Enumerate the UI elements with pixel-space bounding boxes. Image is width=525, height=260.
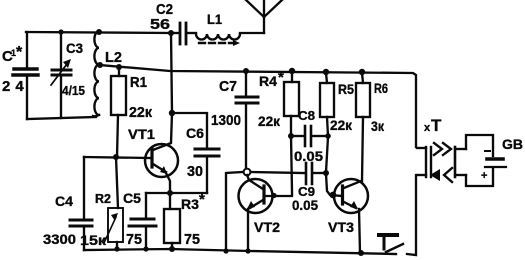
svg-text:C6: C6: [186, 125, 204, 141]
connector XT right half: [455, 147, 466, 177]
wire main top rail: [100, 65, 416, 147]
svg-text:L2: L2: [105, 49, 122, 66]
resistor R4: [258, 68, 299, 136]
svg-text:R6: R6: [374, 80, 388, 96]
battery GB: [481, 136, 523, 182]
wire bottom rail: [84, 249, 396, 254]
svg-text:VT1: VT1: [128, 126, 155, 142]
node VT3 base: [330, 192, 337, 199]
svg-text:3300: 3300: [43, 231, 76, 247]
capacitor C7: [211, 68, 258, 168]
svg-text:C7: C7: [219, 78, 237, 95]
node R1/R2 base junction: [113, 154, 119, 160]
connector XT left half: [417, 147, 431, 177]
antenna: [246, 0, 282, 33]
transistor VT1: [84, 113, 178, 209]
node dot C3 top: [58, 29, 63, 34]
capacitor C9: [251, 163, 326, 213]
svg-text:VT3: VT3: [328, 219, 354, 235]
svg-text:1300: 1300: [211, 112, 241, 129]
svg-text:+: +: [481, 170, 487, 182]
inductor L1: [196, 11, 240, 46]
switch (push button) on rail: [379, 235, 403, 252]
svg-text:0.05: 0.05: [294, 148, 323, 164]
svg-text:3к: 3к: [371, 118, 385, 134]
svg-text:*: *: [16, 44, 23, 61]
transistor VT2: [239, 175, 281, 251]
svg-text:R2: R2: [95, 191, 111, 206]
svg-text:56: 56: [150, 16, 170, 33]
svg-text:22к: 22к: [330, 117, 353, 133]
wire C2 node down to collector node: [171, 33, 172, 113]
inductor L2: [93, 31, 122, 116]
svg-text:GB: GB: [502, 136, 523, 152]
svg-text:R3: R3: [181, 196, 199, 212]
svg-text:30: 30: [187, 163, 203, 180]
resistor R5: [320, 69, 354, 136]
resistor R3: [164, 191, 205, 249]
svg-text:22к: 22к: [129, 104, 152, 121]
node collector VT1: [169, 110, 175, 116]
node dots bottom rail: [114, 246, 119, 251]
resistor R2 (trimmer): [80, 157, 123, 249]
resistor R1: [111, 64, 152, 157]
svg-text:R5: R5: [338, 81, 354, 97]
battery GB loop: [466, 135, 493, 186]
svg-text:C5: C5: [123, 190, 141, 206]
node C9 right: [323, 170, 329, 176]
node emitter VT1: [167, 190, 173, 196]
svg-text:C4: C4: [55, 193, 73, 209]
node C8 left: [288, 133, 294, 139]
node VT2 collector (open): [244, 169, 251, 176]
wire R4 node down to VT2 base: [266, 136, 292, 196]
svg-text:15к: 15к: [80, 232, 107, 248]
wire R5 node down to VT3 base: [326, 137, 328, 172]
wire C6 bottom to emitter: [146, 192, 207, 194]
svg-text:22к: 22к: [258, 113, 281, 129]
svg-text:R1: R1: [130, 74, 147, 91]
capacitor C3 (variable): [51, 32, 85, 118]
connector XT label: [424, 116, 442, 135]
transistor VT3: [328, 179, 368, 253]
wire collector node left and down to rail: [226, 172, 243, 251]
wire tank bottom: [27, 117, 96, 119]
svg-text:C8: C8: [298, 108, 315, 123]
wire collector node to C6: [172, 113, 207, 148]
wire L1 to antenna: [240, 32, 264, 34]
node dot L2 top: [96, 29, 102, 35]
node C8 right: [325, 133, 331, 139]
svg-text:*: *: [278, 69, 284, 86]
resistor R6: [356, 69, 388, 181]
capacitor C2: [150, 1, 196, 44]
capacitor C5: [123, 190, 156, 249]
svg-text:L1: L1: [207, 11, 222, 27]
svg-text:R4: R4: [259, 73, 277, 89]
svg-text:VT2: VT2: [254, 219, 280, 235]
capacitor C1: [2, 32, 38, 119]
capacitor C4: [43, 157, 92, 250]
svg-text:Т: Т: [431, 116, 442, 135]
svg-text:75: 75: [126, 231, 142, 248]
connector XT pin arrows bottom: [430, 168, 452, 182]
svg-text:75: 75: [184, 231, 200, 248]
wire tank top: [26, 32, 171, 33]
svg-text:4/15: 4/15: [62, 83, 85, 98]
capacitor C8: [293, 108, 326, 164]
capacitor C6: [186, 125, 219, 193]
svg-text:0.05: 0.05: [292, 197, 318, 213]
svg-text:х: х: [424, 122, 431, 134]
connector XT pin arrows top: [434, 143, 451, 155]
svg-text:24: 24: [2, 78, 29, 95]
svg-text:C3: C3: [66, 40, 83, 56]
svg-text:*: *: [199, 191, 205, 208]
node dot L2 tap: [97, 62, 103, 68]
